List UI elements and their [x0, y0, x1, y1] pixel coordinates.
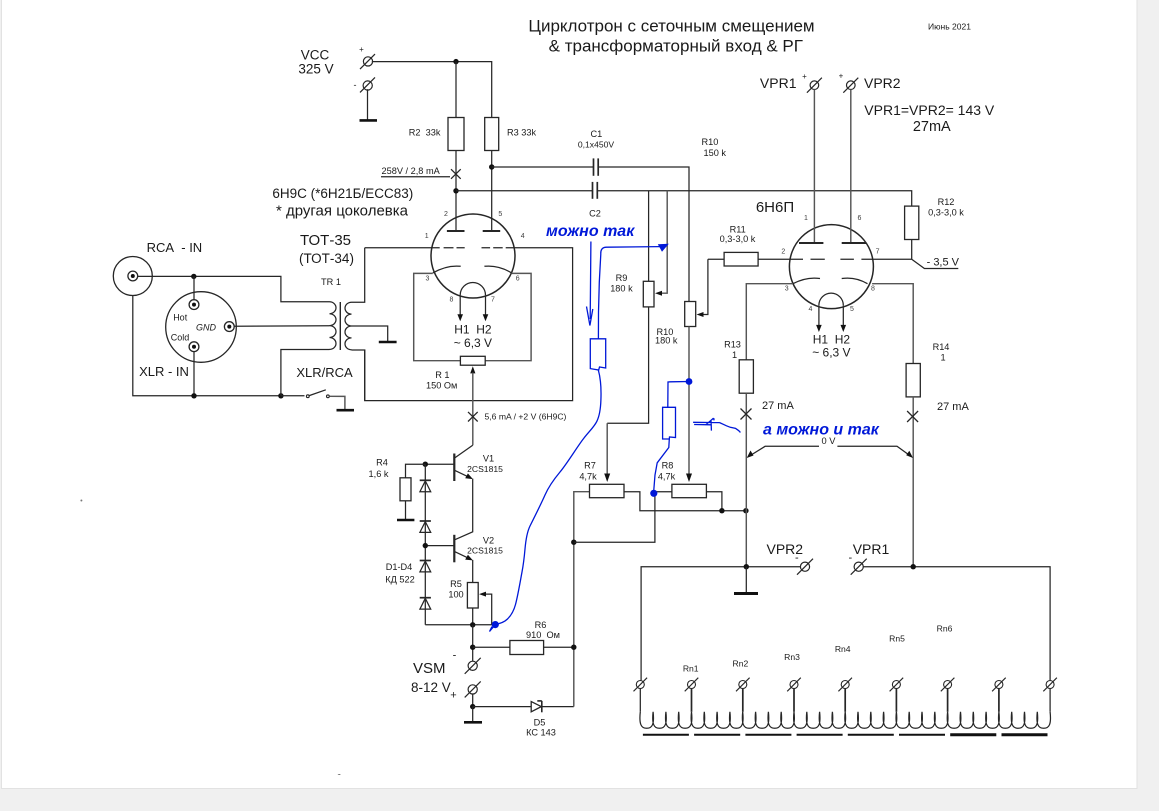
VCC - terminal — [354, 77, 376, 92]
diode D2 — [420, 521, 431, 532]
svg-text:V1: V1 — [483, 454, 494, 464]
svg-text:2CS1815: 2CS1815 — [467, 546, 503, 556]
svg-text:R11: R11 — [730, 225, 746, 235]
junction R8/rail — [719, 508, 724, 513]
wire C2 net (anode pin2 to C2) — [456, 190, 593, 192]
leader line under 258V label — [381, 176, 450, 178]
wire to ground below VSM — [472, 707, 474, 722]
transformer TR1 secondary winding — [345, 302, 352, 350]
wire V2 emitter to R5 — [472, 560, 474, 583]
wire R5 bottom — [472, 608, 474, 625]
svg-text:100: 100 — [448, 590, 463, 600]
wire XLR hot pin up — [193, 276, 195, 300]
svg-text:GND: GND — [196, 323, 217, 333]
svg-text:8: 8 — [450, 297, 454, 304]
tube V-left 6N9S envelope — [431, 214, 515, 298]
junction rail/R6 — [571, 645, 576, 650]
wire VPR1 to anode pin1 — [813, 89, 815, 242]
resistor R2 — [448, 118, 464, 151]
svg-text:а можно и так: а можно и так — [763, 422, 880, 439]
heater lead H1 6N6P — [818, 305, 820, 326]
svg-text:R8: R8 — [662, 461, 674, 471]
svg-text:R4: R4 — [376, 458, 388, 468]
svg-text:H1 H2: H1 H2 — [813, 333, 851, 347]
blue resistor (mozhno tak) — [590, 339, 605, 370]
svg-text:+: + — [450, 690, 456, 702]
svg-text:(ТОТ-34): (ТОТ-34) — [299, 251, 354, 266]
svg-text:4: 4 — [809, 306, 813, 313]
wire VCC- to ground — [367, 89, 369, 120]
tap terminal 2 — [685, 678, 699, 692]
resistor R11 — [724, 252, 758, 266]
stray dot left — [80, 500, 82, 502]
svg-text:6: 6 — [516, 276, 520, 283]
core bar 1 — [643, 734, 689, 736]
wire C1 net (anode pin5 to C1 to R10 line) — [492, 166, 594, 168]
transformer TR1 core — [339, 302, 341, 350]
svg-text:R 1: R 1 — [435, 370, 449, 380]
svg-text:3: 3 — [785, 286, 789, 293]
svg-text:КД 522: КД 522 — [385, 575, 414, 585]
wire V1 base — [425, 463, 454, 465]
X marker 258V measure point — [451, 169, 461, 179]
cathode arc right (6N9S) — [484, 266, 511, 273]
X marker 5,6 mA point — [468, 412, 478, 422]
ground at VCC — [360, 119, 378, 122]
svg-text:-: - — [453, 650, 457, 662]
svg-text:5: 5 — [498, 211, 502, 218]
rheostat winding Rn — [640, 712, 1051, 729]
tap terminal 7 — [941, 678, 955, 692]
svg-text:VPR2: VPR2 — [864, 75, 901, 91]
tap wire 2 — [691, 689, 693, 712]
core bar 3 — [745, 734, 791, 736]
heater lead H2 with arrow — [485, 295, 487, 315]
svg-text:XLR/RCA: XLR/RCA — [296, 365, 353, 380]
svg-text:D5: D5 — [534, 718, 546, 728]
R10 wiper wire from R11 — [701, 259, 708, 314]
wire switch to ground — [330, 396, 345, 409]
anode plate pin6 (6N6P) — [842, 242, 866, 244]
svg-text:R13: R13 — [724, 340, 741, 350]
blue wire resistor to R5 node — [495, 370, 601, 624]
tube V-right 6N6P envelope — [789, 225, 873, 309]
diode D3 — [420, 561, 431, 572]
transistor V1 — [454, 454, 473, 482]
junction rail/R13 line — [743, 508, 748, 513]
VCC + terminal — [359, 45, 375, 69]
VPR2 top terminal — [839, 72, 859, 93]
svg-text:VCC: VCC — [301, 48, 330, 63]
diode D1 — [420, 480, 431, 491]
tap terminal 8 — [992, 678, 1006, 692]
svg-text:150 k: 150 k — [704, 148, 727, 158]
svg-text:+: + — [839, 72, 844, 81]
svg-text:R3 33k: R3 33k — [507, 128, 537, 138]
svg-text:180 k: 180 k — [610, 283, 633, 293]
svg-text:910 Ом: 910 Ом — [526, 630, 560, 640]
potentiometer R8 — [672, 484, 707, 497]
wire C1 right to vertical drop — [598, 167, 689, 301]
junction V1 base / bias chain — [423, 462, 428, 467]
transformer TR1 primary winding — [330, 302, 337, 350]
tap terminal 6 — [890, 678, 904, 692]
wire primary bottom to rail — [281, 350, 330, 396]
XLR pin Hot — [173, 300, 199, 323]
wire secondary top to grid loop — [352, 248, 365, 302]
svg-text:27 mA: 27 mA — [937, 401, 969, 413]
svg-text:+: + — [359, 45, 364, 54]
svg-text:КС 143: КС 143 — [526, 728, 556, 738]
blue junction dot at R8 left — [650, 490, 657, 497]
svg-text:~ 6,3 V: ~ 6,3 V — [812, 346, 850, 360]
svg-text:2: 2 — [444, 211, 448, 218]
svg-text:-: - — [354, 80, 357, 90]
tap terminal 3 — [736, 678, 750, 692]
svg-text:5: 5 — [850, 306, 854, 313]
-3,5V leader — [912, 259, 959, 268]
wire VCC+ rail — [372, 62, 492, 118]
svg-text:1,6 k: 1,6 k — [369, 469, 389, 479]
VPR1 bottom terminal — [848, 552, 866, 575]
blue resistor 2 (a mozhno i tak) — [663, 407, 676, 439]
wire VSM+ to D5 — [473, 706, 532, 708]
svg-text:180 k: 180 k — [655, 335, 678, 345]
capacitor C2 — [593, 182, 598, 199]
wire R7 right to rail — [624, 492, 746, 511]
X marker 27mA left — [741, 409, 752, 420]
svg-text:0,1x450V: 0,1x450V — [578, 139, 615, 149]
svg-text:можно так: можно так — [546, 223, 635, 240]
cathode arc right (6N6P) — [842, 278, 868, 284]
blue tail squiggle at dot — [490, 625, 496, 632]
wire V2 base — [425, 545, 454, 547]
svg-text:150 Ом: 150 Ом — [426, 381, 457, 391]
heater lead H1 with arrow — [459, 295, 461, 315]
svg-text:VPR2: VPR2 — [767, 541, 804, 557]
tap wire 6 — [895, 689, 897, 712]
core bar 6 — [899, 734, 945, 736]
core bar 7 — [950, 733, 996, 736]
tap wire 7 — [947, 689, 949, 712]
cathode arc left (6N6P) — [793, 278, 820, 284]
svg-text:R9: R9 — [616, 273, 628, 283]
R7 wiper drop — [606, 423, 608, 475]
blue hand mark near a mozhno i tak — [693, 418, 740, 432]
capacitor C1 — [594, 158, 599, 175]
ground at transformer secondary — [379, 341, 397, 344]
0V bracket left arrow — [750, 446, 820, 456]
wire R10 bottom to R8 wiper — [688, 327, 690, 476]
wire R9 top lead — [648, 191, 650, 282]
svg-text:TR 1: TR 1 — [321, 277, 341, 287]
ground at VSM — [464, 721, 482, 724]
XLR pin GND — [196, 322, 234, 333]
heater arc 6N9S — [460, 282, 485, 295]
wire R2 top lead — [455, 62, 457, 118]
bottom rail right segment — [863, 567, 1050, 681]
svg-text:Hot: Hot — [173, 313, 188, 323]
svg-text:R10: R10 — [702, 137, 719, 147]
svg-text:RCA - IN: RCA - IN — [147, 240, 203, 255]
svg-text:Цирклотрон с сеточным смещение: Цирклотрон с сеточным смещением — [528, 17, 814, 36]
potentiometer R10 (180k) — [685, 302, 696, 327]
svg-text:R14: R14 — [933, 342, 950, 352]
VPR1 top terminal — [802, 72, 822, 93]
wire R8 right down to rail — [706, 492, 722, 511]
X marker 27mA right — [907, 411, 918, 422]
junction V2 base — [423, 543, 428, 548]
core bar 5 — [848, 734, 894, 736]
svg-text:XLR - IN: XLR - IN — [139, 364, 189, 379]
ground at R4 — [397, 519, 414, 522]
resistor R12 — [905, 206, 919, 239]
VPR2 bottom terminal — [795, 552, 813, 575]
svg-text:Cold: Cold — [171, 333, 190, 343]
svg-text:+: + — [802, 72, 807, 81]
svg-text:R12: R12 — [938, 197, 955, 207]
wire down to VSM node — [472, 625, 474, 661]
svg-text:D1-D4: D1-D4 — [386, 562, 413, 572]
junction R2 line / C2 wire — [453, 188, 458, 193]
svg-text:1: 1 — [732, 350, 737, 360]
resistor R3 — [485, 118, 499, 151]
switch XLR/RCA — [306, 390, 329, 398]
svg-text:4,7k: 4,7k — [658, 472, 676, 482]
resistor R13 — [739, 360, 753, 393]
wire VPR2 to anode pin6 — [850, 89, 852, 242]
wire left rail into winding — [639, 689, 641, 712]
tap terminal 1 — [634, 678, 648, 692]
svg-text:* другая цоколевка: * другая цоколевка — [276, 203, 409, 220]
potentiometer R5 — [467, 583, 478, 609]
svg-text:R2 33k: R2 33k — [409, 128, 441, 138]
wire RCA shield down and bottom rail — [133, 296, 281, 396]
svg-text:Июнь 2021: Июнь 2021 — [928, 22, 971, 32]
svg-text:8-12 V: 8-12 V — [411, 680, 451, 695]
wire R3 bottom to anode pin5 — [491, 151, 493, 232]
stray mark bottom — [338, 773, 341, 776]
wire to R6 — [473, 646, 510, 648]
svg-text:2CS1815: 2CS1815 — [467, 464, 503, 474]
wire D5 to vertical rail — [542, 706, 574, 708]
wire R11 left lead — [708, 258, 724, 260]
grid dashed line 6N6P — [790, 258, 873, 260]
blue wire down to blue resistor — [598, 254, 600, 339]
heater lead H2 6N6P — [842, 305, 844, 326]
RCA connector J1 — [113, 257, 152, 296]
0V bracket right arrow — [837, 446, 910, 456]
svg-text:ТОТ-35: ТОТ-35 — [300, 232, 351, 249]
core bar 4 — [797, 734, 843, 736]
junction VSM node — [470, 645, 475, 650]
wire R2 bottom to anode pin2 — [455, 151, 457, 232]
tap terminal 5 — [838, 678, 852, 692]
blue wire R10 line to blue resistor 2 — [668, 382, 689, 408]
wire grid pin7 to R12 bottom — [873, 258, 911, 260]
anode plate pin5 (right triode) — [483, 230, 501, 232]
resistor R6 — [510, 641, 544, 655]
svg-text:- 3,5 V: - 3,5 V — [927, 256, 960, 268]
wire right rail into winding — [1049, 689, 1051, 712]
R9 wiper wire from C2 rail — [660, 191, 668, 293]
junction R5 bottom — [470, 622, 475, 627]
wire R8 left to blue tap node — [574, 492, 672, 543]
wire secondary bottom to loop bottom — [352, 350, 365, 401]
junction cold/rail — [191, 393, 196, 398]
svg-text:6Н9С (*6Н21Б/ECC83): 6Н9С (*6Н21Б/ECC83) — [272, 186, 413, 201]
svg-text:3: 3 — [426, 276, 430, 283]
wire R4 bottom to ground — [405, 501, 407, 520]
transistor V2 — [454, 535, 473, 563]
anode plate pin1 (6N6P) — [799, 242, 823, 244]
junction R3 line / C1 wire — [489, 164, 494, 169]
resistor R14 — [906, 364, 920, 397]
vertical rail R7-left/R6/D5 — [574, 492, 590, 707]
svg-text:Rn4: Rn4 — [835, 644, 851, 654]
tap wire 3 — [742, 689, 744, 712]
blue junction dot on R10 line — [686, 378, 693, 385]
junction rail/R13 bottom — [744, 564, 749, 569]
wire rail to switch — [281, 395, 305, 397]
wire XLR cold pin down — [193, 351, 195, 396]
wire to main ground — [745, 567, 747, 592]
svg-text:V2: V2 — [483, 536, 494, 546]
svg-text:27mA: 27mA — [913, 119, 951, 135]
wire R12 bottom lead — [911, 240, 913, 260]
potentiometer R1 — [460, 356, 485, 365]
wire secondary mid tap to ground — [352, 326, 388, 341]
ground at switch — [337, 409, 355, 412]
core bar 8 — [1002, 733, 1048, 736]
wire V1 emitter to V2 collector — [455, 479, 473, 540]
blue arrow under note — [587, 242, 593, 326]
tap wire 8 — [998, 689, 1000, 712]
tap terminal 4 — [787, 678, 801, 692]
junction VSM+/D5 — [470, 704, 475, 709]
svg-text:1: 1 — [804, 215, 808, 222]
svg-text:27 mA: 27 mA — [762, 400, 794, 412]
svg-text:7: 7 — [491, 297, 495, 304]
potentiometer R9 — [643, 281, 654, 307]
junction rail/R14 bottom — [911, 564, 916, 569]
R9 wiper arrowhead — [655, 291, 662, 296]
grid dashed line 6N9S — [432, 247, 515, 249]
blue wire resistor 2 down to R8 left node — [654, 439, 670, 490]
junction rail/R8-left branch — [571, 540, 576, 545]
svg-text:H1 H2: H1 H2 — [454, 323, 492, 337]
junction VCC/R2 — [453, 59, 458, 64]
svg-text:4: 4 — [521, 233, 525, 240]
resistor R4 — [400, 478, 411, 501]
svg-text:7: 7 — [876, 249, 880, 256]
zener diode D5 — [531, 701, 542, 712]
wire C2 right long rail to R12 — [597, 191, 911, 206]
junction rail/transformer bottom — [278, 393, 283, 398]
tap terminal 9 — [1043, 678, 1057, 692]
wire cathode pin3 to R13 — [746, 284, 793, 360]
junction RCA/XLR hot — [191, 274, 196, 279]
wire R11 right to grid pin2 — [758, 258, 790, 260]
svg-text:R6: R6 — [535, 620, 547, 630]
svg-text:2: 2 — [781, 249, 785, 256]
wire cathode pin8 to R14 — [872, 284, 913, 364]
wire XLR gnd pin to transformer mid tap — [234, 325, 330, 327]
tap wire 4 — [793, 689, 795, 712]
R5 wiper wire — [484, 594, 492, 625]
diode D4 — [420, 598, 431, 609]
svg-text:6: 6 — [858, 215, 862, 222]
XLR pin Cold — [171, 333, 199, 352]
heater arc 6N6P — [819, 293, 843, 305]
svg-text:8: 8 — [871, 286, 875, 293]
wire R9 bottom to R7 wiper — [607, 307, 648, 423]
svg-text:R5: R5 — [450, 579, 462, 589]
bottom wire of bias chain — [425, 624, 497, 626]
svg-text:0,3-3,0 k: 0,3-3,0 k — [720, 234, 756, 244]
blue junction dot at R5 node — [492, 621, 499, 628]
VSM terminal plus — [450, 681, 480, 701]
svg-text:Rn3: Rn3 — [784, 652, 800, 662]
svg-text:Rn1: Rn1 — [683, 664, 699, 674]
svg-text:~ 6,3 V: ~ 6,3 V — [454, 336, 492, 350]
R1 wiper arrow and wire down — [470, 366, 475, 373]
svg-text:258V / 2,8 mA: 258V / 2,8 mA — [382, 166, 441, 176]
XLR connector body — [166, 292, 237, 363]
wire X point to V1 collector — [455, 445, 473, 458]
cathode arc left (6N9S) — [433, 266, 461, 273]
svg-text:Rn2: Rn2 — [733, 659, 749, 669]
main ground symbol — [734, 592, 758, 595]
tap wire 5 — [844, 689, 846, 712]
wire R13 down to bottom rail — [745, 393, 747, 567]
svg-text:C2: C2 — [589, 208, 601, 218]
svg-text:VPR1: VPR1 — [760, 75, 797, 91]
svg-text:& трансформаторный вход & РГ: & трансформаторный вход & РГ — [549, 37, 803, 56]
svg-text:Rn6: Rn6 — [937, 624, 953, 634]
svg-text:1: 1 — [425, 233, 429, 240]
svg-text:4,7k: 4,7k — [579, 472, 597, 482]
svg-text:0,3-3,0 k: 0,3-3,0 k — [928, 208, 964, 218]
svg-text:1: 1 — [940, 353, 945, 363]
svg-text:325 V: 325 V — [298, 61, 333, 76]
potentiometer R7 — [590, 484, 625, 497]
svg-text:C1: C1 — [591, 129, 603, 139]
svg-text:6Н6П: 6Н6П — [756, 199, 794, 216]
blue wire to R9 wiper node with arrowhead — [601, 247, 660, 254]
svg-text:Rn5: Rn5 — [889, 634, 905, 644]
svg-text:VPR1=VPR2= 143 V: VPR1=VPR2= 143 V — [864, 102, 995, 118]
core bar 2 — [694, 734, 740, 736]
svg-text:R7: R7 — [584, 461, 596, 471]
svg-text:VPR1: VPR1 — [853, 541, 890, 557]
VSM terminal minus — [453, 650, 481, 674]
bias chain wire (diode string) — [424, 464, 426, 625]
wire VSM+ down — [472, 694, 474, 707]
wire RCA hot to transformer — [138, 276, 330, 301]
svg-text:VSM: VSM — [413, 660, 446, 677]
heater box 6N9S — [414, 273, 461, 360]
anode plate pin2 (left triode) — [447, 230, 465, 232]
bottom rail left segment — [641, 567, 800, 681]
wire R14 down to bottom rail — [912, 397, 914, 567]
wire R6 right to vertical rail — [544, 646, 574, 648]
wire R4 top lead — [406, 464, 426, 478]
grid loop wire left tube (big box) — [365, 247, 432, 249]
svg-text:5,6 mA / +2 V (6Н9С): 5,6 mA / +2 V (6Н9С) — [485, 412, 567, 422]
